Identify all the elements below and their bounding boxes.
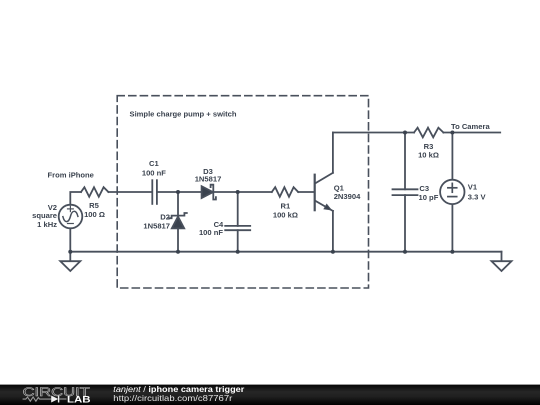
CircuitLab logo: resistor-diode waveform glyph [23, 396, 67, 403]
ground rail wire [70, 251, 501, 253]
diode D3 (1N5817, pointing right, schottky cathode bar) [202, 185, 216, 200]
dashed subcircuit box "Simple charge pump + switch" [117, 96, 368, 288]
wire C1 to D3 with node at x=178 [158, 191, 202, 193]
node: V1 top junction [450, 131, 454, 135]
node: C4 ground junction [236, 250, 240, 254]
node: D2 ground junction [176, 250, 180, 254]
svg-text:100 nF: 100 nF [199, 228, 223, 237]
svg-text:3.3 V: 3.3 V [468, 193, 487, 202]
label R5 name/value [84, 201, 105, 219]
svg-text:Simple charge pump + switch: Simple charge pump + switch [130, 110, 237, 119]
svg-text:V1: V1 [468, 183, 478, 192]
label V2 name/value [32, 203, 57, 229]
voltage source V2 (1 kHz square source) [59, 205, 83, 229]
svg-text:http://circuitlab.com/c87767r: http://circuitlab.com/c87767r [113, 393, 232, 403]
ground symbol right [492, 252, 512, 271]
svg-text:1N5817: 1N5817 [143, 222, 170, 231]
wire V2 bottom lead to ground rail [69, 228, 71, 251]
wire Q1 emitter down to ground rail [332, 211, 334, 252]
label Q1 name/value [334, 183, 361, 201]
svg-text:1N5817: 1N5817 [195, 175, 222, 184]
svg-text:R3: R3 [424, 142, 434, 151]
resistor R1 [272, 187, 298, 197]
label D2 name/value [143, 212, 170, 230]
label R1 name/value [273, 201, 298, 219]
label C3 name/value [419, 184, 439, 202]
capacitor C4 branch wires [237, 192, 239, 252]
top rail wire collector to R3 [333, 132, 414, 134]
wire R5 to C1 [108, 191, 151, 193]
capacitor C3 branch wires [404, 133, 406, 252]
svg-text:10 kΩ: 10 kΩ [418, 151, 439, 160]
wire R3 to open "To Camera" end [443, 132, 500, 134]
resistor R5 [81, 187, 108, 197]
svg-text:D2: D2 [160, 212, 170, 221]
node: D3/C4/R1 charge pump output junction [236, 190, 240, 194]
label R3 name/value [418, 142, 439, 160]
svg-text:10 pF: 10 pF [419, 193, 439, 202]
diode D2 vertical branch wire (node to anode / cathode to node) [177, 192, 179, 252]
svg-text:R1: R1 [281, 201, 291, 210]
node: emitter ground junction [331, 250, 335, 254]
svg-text:From iPhone: From iPhone [47, 170, 93, 179]
svg-text:100 Ω: 100 Ω [84, 210, 105, 219]
svg-text:R5: R5 [89, 201, 99, 210]
svg-text:C3: C3 [419, 184, 429, 193]
voltage source V1 (3.3 V DC) [440, 180, 464, 204]
capacitor C4 [225, 226, 250, 230]
label C4 name/value [199, 220, 224, 237]
resistor R3 [414, 128, 443, 138]
wire V2 top lead up to signal rail [70, 192, 81, 205]
label C1 name/value [142, 159, 166, 177]
svg-text:square: square [32, 211, 57, 220]
node: C3 ground junction [403, 250, 407, 254]
label D3 name/value [195, 167, 222, 184]
wire D3 to R1 with node at x=237.7 [214, 191, 272, 193]
transistor Q1 (2N3904 NPN) [315, 173, 333, 211]
svg-text:C1: C1 [149, 159, 159, 168]
wire R1 to Q1 base [298, 191, 314, 193]
ground symbol left [60, 252, 80, 271]
wire Q1 collector up to top rail [332, 133, 334, 173]
svg-text:To Camera: To Camera [451, 122, 490, 131]
footer black bar [0, 385, 540, 405]
node: V1 ground junction [450, 250, 454, 254]
svg-text:100 kΩ: 100 kΩ [273, 211, 298, 220]
node: C3 top junction [403, 131, 407, 135]
label V1 name/value [468, 183, 487, 202]
diode D2 (1N5817, pointing up, schottky cathode bar) [169, 213, 187, 228]
svg-text:2N3904: 2N3904 [334, 192, 361, 201]
node: V2/ground rail junction [68, 250, 72, 254]
capacitor C3 [393, 189, 418, 195]
svg-text:100 nF: 100 nF [142, 169, 166, 178]
capacitor C1 [152, 180, 157, 204]
svg-text:1 kHz: 1 kHz [37, 220, 57, 229]
node: C1/D2/D3 junction [176, 190, 180, 194]
voltage source V1 branch wires [451, 133, 453, 252]
svg-text:LAB: LAB [67, 395, 91, 405]
